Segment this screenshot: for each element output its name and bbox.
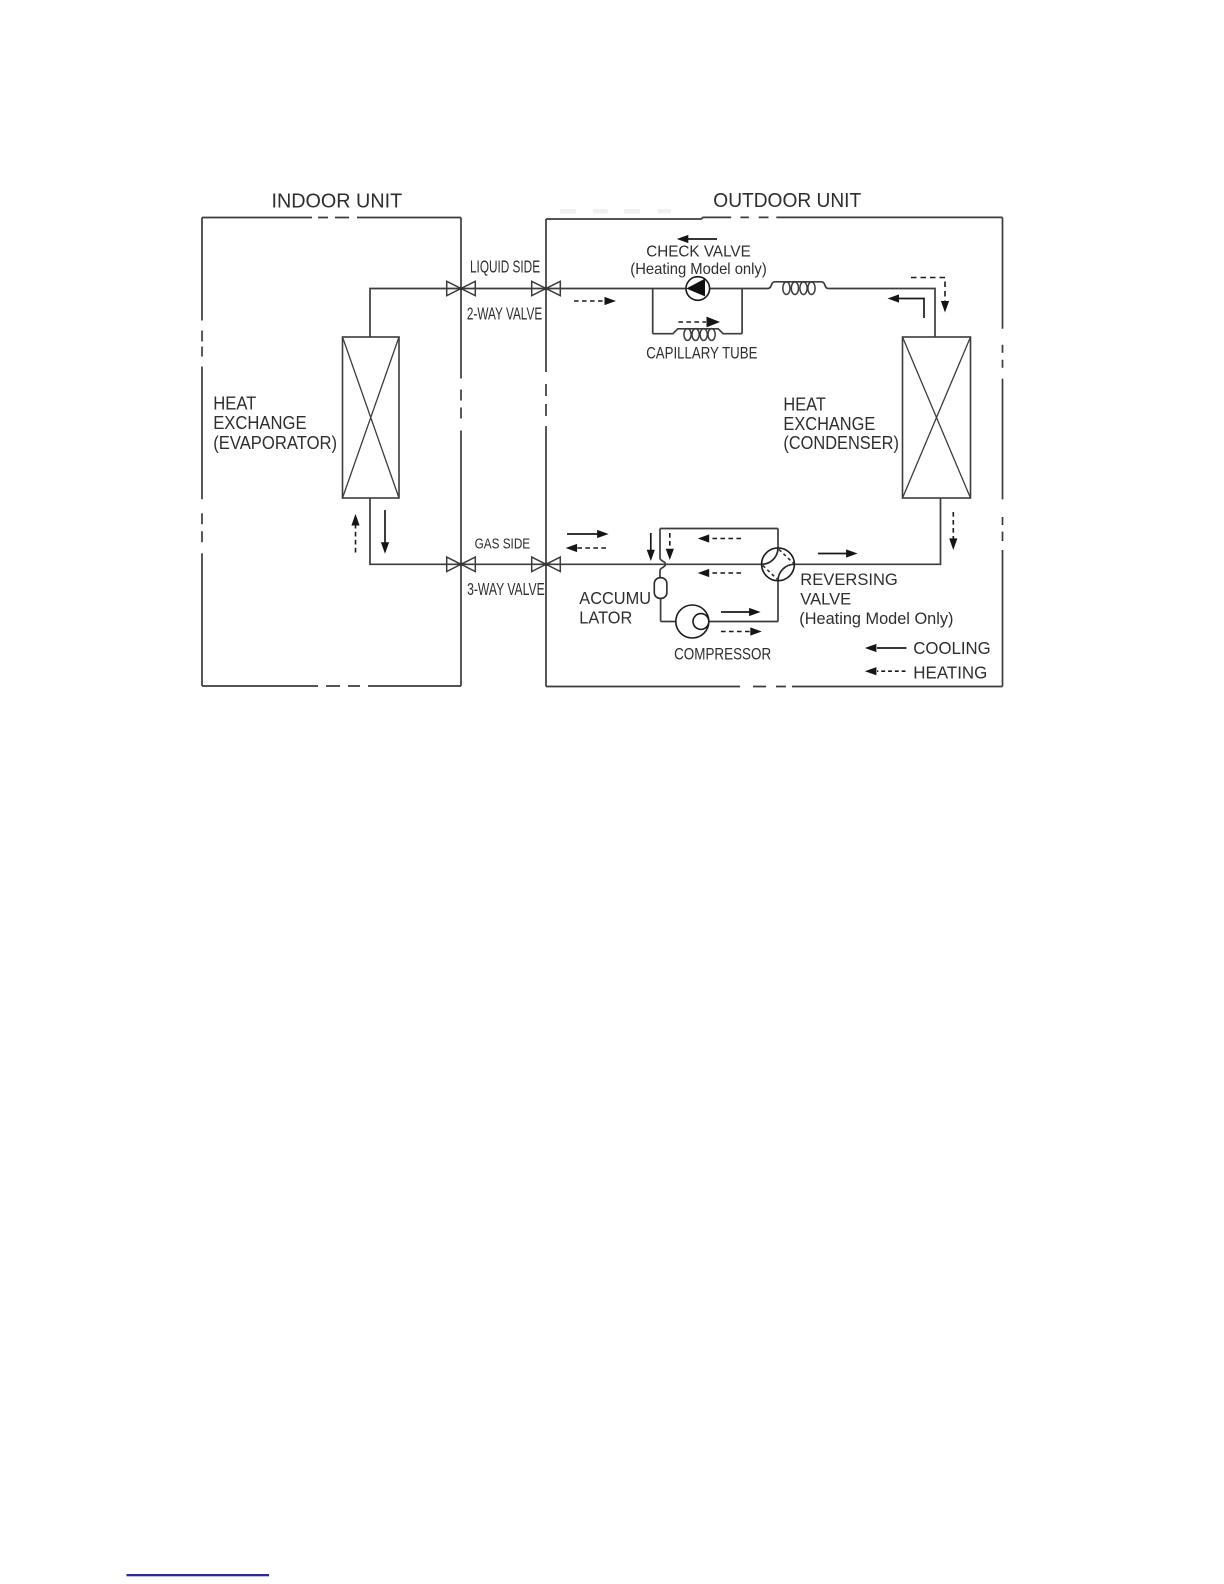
legend cooling arrow: [865, 644, 907, 652]
liquid service valve bowtie: [532, 281, 561, 295]
indoor unit box right edge: [460, 218, 462, 687]
svg-text:LATOR: LATOR: [579, 608, 632, 628]
label 2-WAY VALVE: [467, 304, 542, 324]
accumulator: [654, 578, 667, 599]
label HEAT EXCHANGE (CONDENSER): [783, 394, 826, 415]
label GAS SIDE: [475, 535, 531, 552]
svg-text:GAS SIDE: GAS SIDE: [475, 535, 531, 552]
svg-text:2-WAY VALVE: 2-WAY VALVE: [467, 304, 542, 324]
dashed down arrow into accumulator branch (heating): [666, 533, 674, 560]
indoor unit box left edge: [201, 218, 203, 687]
compressor: [676, 605, 709, 638]
suction line coil L1: [783, 282, 815, 295]
svg-text:(Heating Model Only): (Heating Model Only): [799, 608, 953, 627]
svg-text:REVERSING: REVERSING: [800, 570, 898, 589]
indoor unit box bottom edge: [202, 685, 461, 687]
wire liquid line to condenser corner and down: [828, 289, 935, 338]
svg-text:VALVE: VALVE: [800, 590, 851, 609]
wire capillary branch left vertical: [652, 289, 654, 334]
wire loop right edge through reversing valve: [777, 529, 779, 622]
label HEAT EXCHANGE (EVAPORATOR): [213, 393, 256, 414]
dashed left arrow in loop top (heating): [698, 534, 741, 542]
evaporator heat exchanger: [343, 337, 400, 498]
wire liquid line from check valve to coil: [710, 288, 768, 290]
svg-text:LIQUID SIDE: LIQUID SIDE: [470, 257, 540, 277]
gas service valve bowtie: [532, 557, 561, 571]
svg-text:COOLING: COOLING: [913, 639, 990, 658]
wire accumulator to loop bottom: [660, 598, 662, 621]
label OUTDOOR UNIT: [713, 189, 861, 212]
wire loop left vertical upper with S-jog over gas line: [660, 529, 666, 578]
3-way valve junction dot: [459, 563, 463, 567]
label (Heating Model only): [630, 261, 766, 278]
wire capillary branch right vertical: [741, 289, 743, 334]
solid flow arrow above check valve (cooling, left): [677, 235, 717, 243]
dashed right arrow at compressor discharge (heating): [721, 627, 762, 635]
wire liquid line coil raised section: [768, 282, 828, 289]
svg-text:CHECK VALVE: CHECK VALVE: [646, 243, 751, 260]
2-way valve bowtie: [447, 281, 476, 295]
scan artifact dashes above outdoor box: [560, 209, 671, 213]
condenser heat exchanger: [903, 337, 971, 498]
dashed up arrow at evaporator (heating): [351, 514, 359, 553]
svg-text:HEATING: HEATING: [913, 663, 987, 682]
label CAPILLARY TUBE: [646, 344, 757, 363]
wire capillary branch bottom with raised coil section: [653, 329, 742, 334]
label REVERSING VALVE: [800, 570, 898, 589]
check valve: [686, 277, 710, 301]
label HEATING: [913, 663, 987, 682]
wire evaporator top pipe and liquid line to check valve: [370, 289, 687, 338]
dashed left arrow toward 3-way valve (heating): [566, 544, 606, 552]
label CHECK VALVE: [646, 243, 751, 260]
solid right arrow after 3-way valve (cooling): [567, 530, 609, 538]
svg-text:ACCUMU: ACCUMU: [579, 589, 651, 609]
label ACCUMULATOR: [579, 589, 651, 609]
label INDOOR UNIT: [272, 190, 403, 212]
solid down arrow into accumulator branch: [647, 533, 655, 561]
liquid service valve junction dot: [544, 287, 548, 291]
wire loop top edge: [660, 528, 778, 530]
label COOLING: [913, 639, 990, 658]
indoor unit box top edge: [202, 217, 461, 219]
dashed right arrow after liquid service valve (heating): [574, 297, 616, 305]
outdoor unit box bottom edge: [546, 686, 1003, 688]
solid L arrow left of condenser (cooling, left): [888, 294, 925, 318]
svg-text:INDOOR UNIT: INDOOR UNIT: [272, 190, 403, 212]
svg-text:OUTDOOR UNIT: OUTDOOR UNIT: [713, 189, 861, 212]
dashed left arrow below gas line (heating): [698, 569, 741, 577]
label COMPRESSOR: [674, 647, 771, 664]
label LIQUID SIDE: [470, 257, 540, 277]
wire evaporator bottom pipe, gas line, condenser bottom pipe: [370, 498, 941, 564]
svg-text:(CONDENSER): (CONDENSER): [783, 432, 899, 453]
svg-text:3-WAY VALVE: 3-WAY VALVE: [467, 580, 545, 600]
solid right arrow right of reversing valve (cooling): [818, 549, 858, 557]
gas service valve junction dot: [544, 563, 548, 567]
2-way valve junction dot: [459, 287, 463, 291]
solid down arrow at evaporator outlet: [381, 510, 389, 554]
wire loop bottom edge: [661, 621, 778, 623]
svg-text:(EVAPORATOR): (EVAPORATOR): [213, 432, 337, 453]
label 3-WAY VALVE: [467, 580, 545, 600]
svg-text:(Heating Model only): (Heating Model only): [630, 261, 766, 278]
dashed down arrow right of condenser outlet (heating): [949, 512, 957, 550]
svg-text:HEAT: HEAT: [783, 394, 826, 415]
outdoor unit box right edge: [1002, 217, 1004, 686]
svg-text:EXCHANGE: EXCHANGE: [213, 412, 306, 433]
solid right arrow at compressor discharge (cooling): [721, 608, 761, 616]
outdoor unit box left edge: [545, 219, 547, 687]
svg-text:CAPILLARY TUBE: CAPILLARY TUBE: [646, 344, 757, 363]
footer blue rule: [127, 1574, 270, 1576]
outdoor unit box top edge: [546, 217, 731, 219]
capillary tube coil L2: [684, 329, 715, 341]
3-way valve bowtie: [447, 557, 476, 571]
dashed corner arrow into condenser (heating, down): [911, 278, 949, 313]
reversing valve: [762, 548, 795, 581]
legend heating arrow: [865, 667, 906, 675]
svg-text:COMPRESSOR: COMPRESSOR: [674, 647, 771, 664]
dashed right arrow over capillary tube (heating): [678, 317, 720, 328]
svg-text:HEAT: HEAT: [213, 393, 256, 414]
